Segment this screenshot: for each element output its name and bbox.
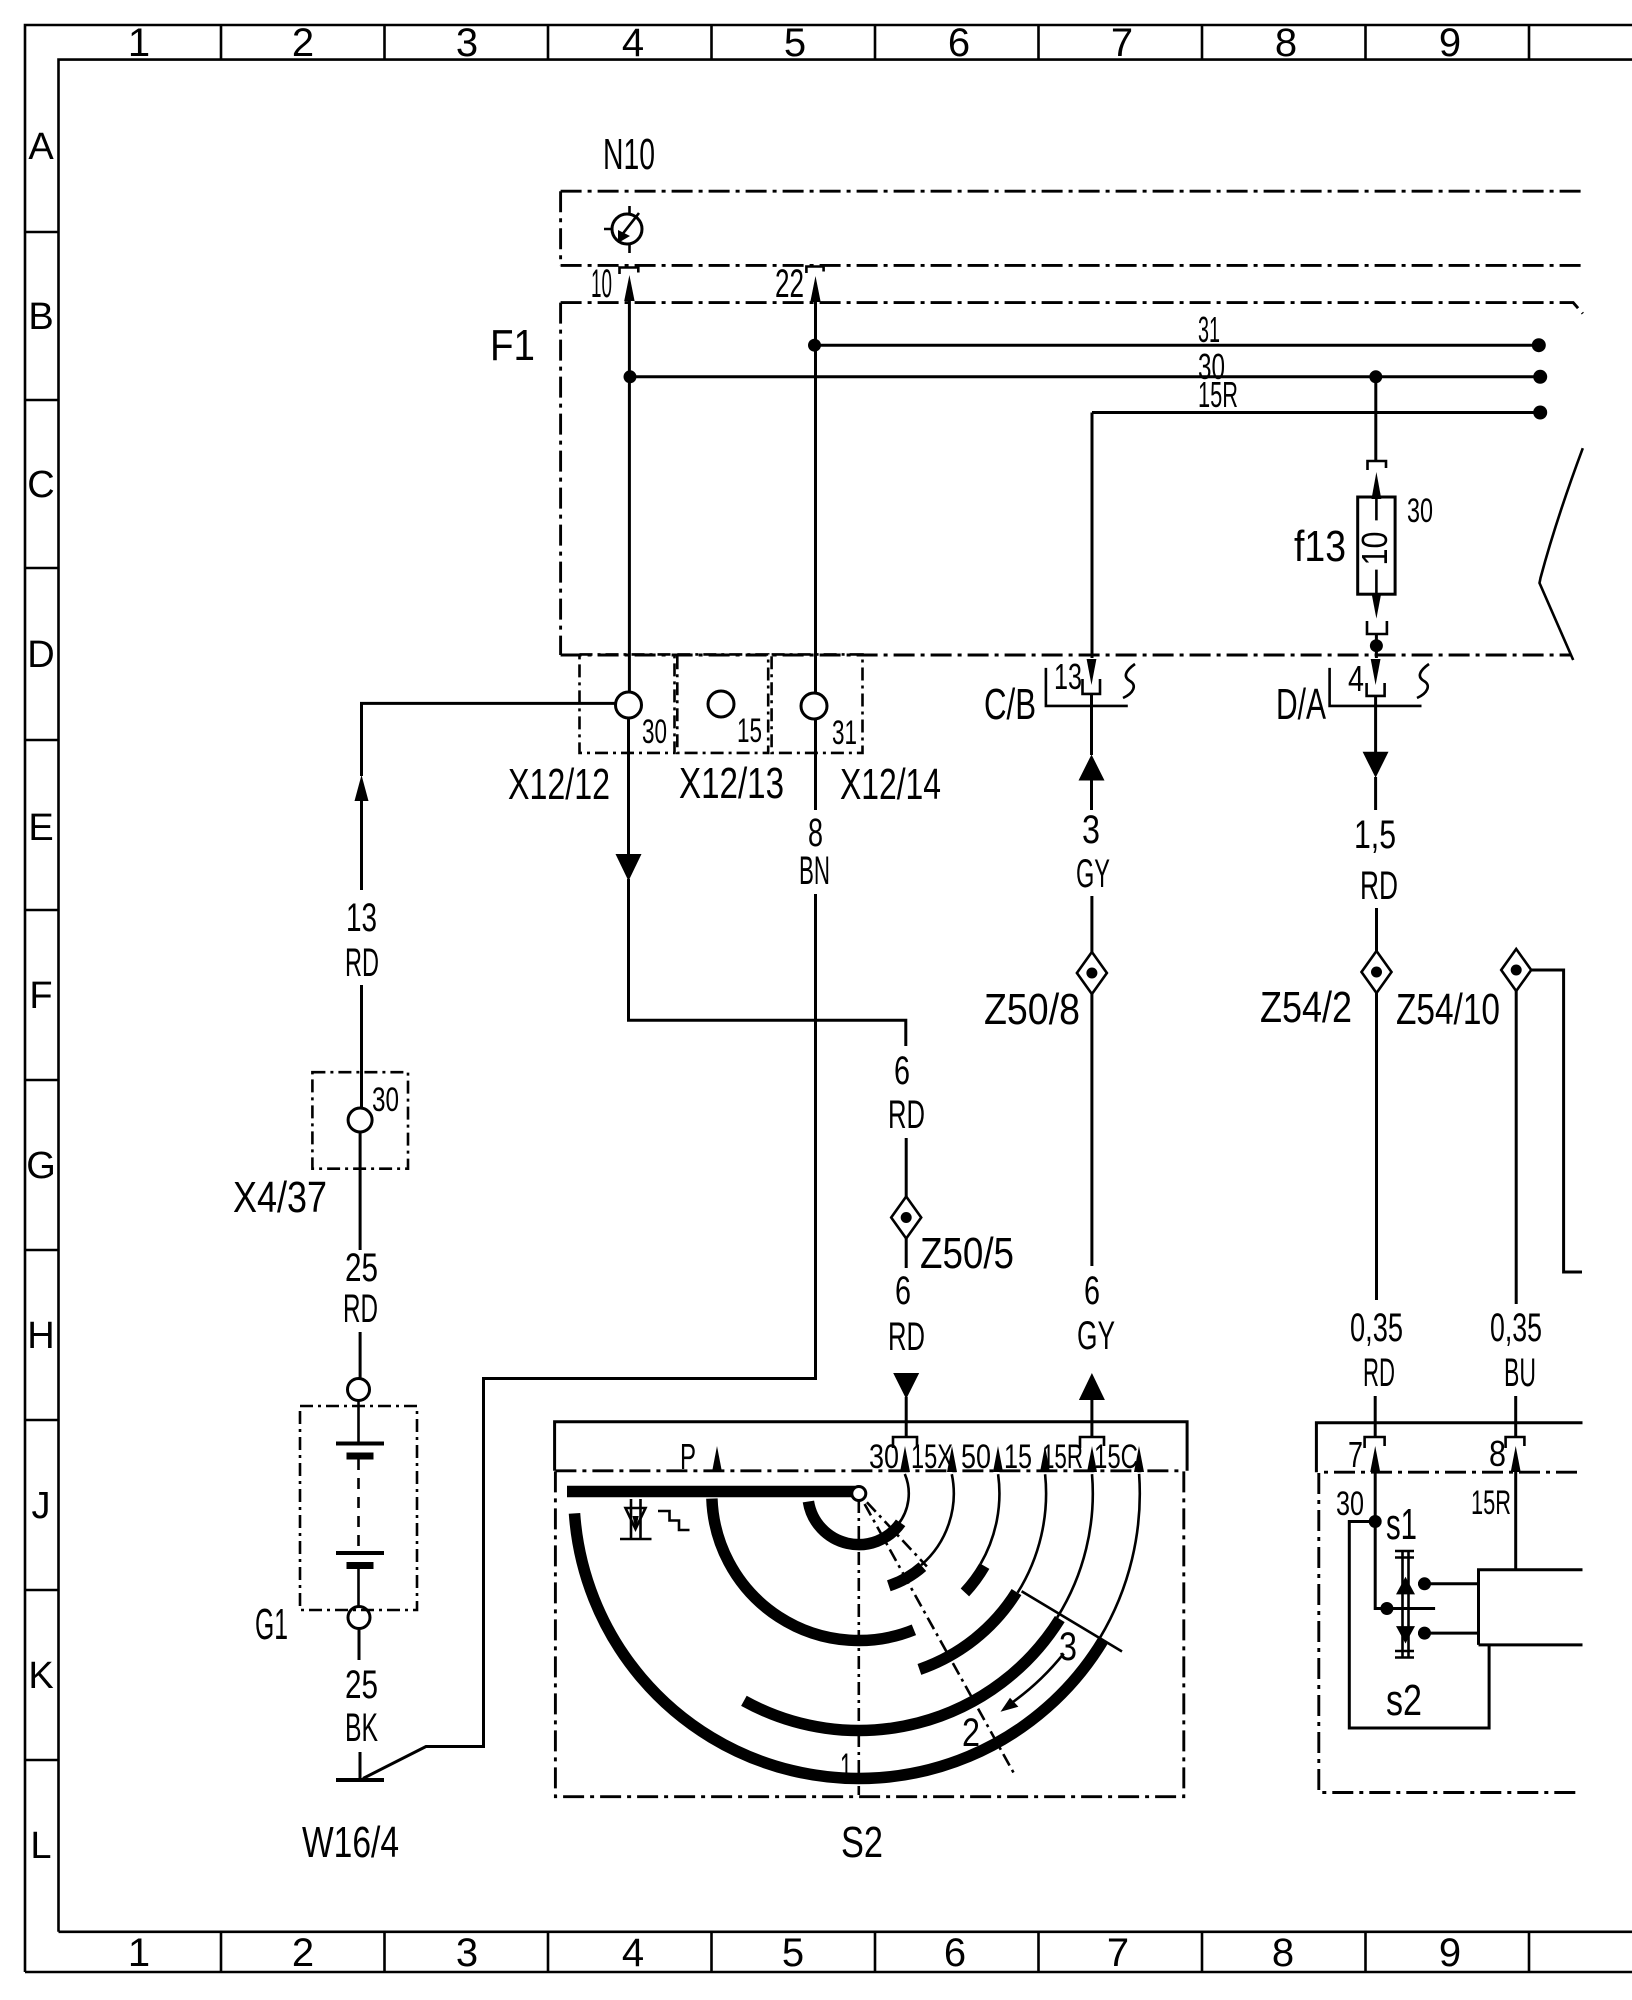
svg-text:0,35: 0,35 — [1490, 1306, 1542, 1350]
ground link wire to BN — [363, 1379, 816, 1779]
switch lower contact arrow — [1396, 1626, 1415, 1643]
X12/12 pin 30 label — [642, 713, 667, 751]
arrow down on X12/12 wire — [616, 854, 642, 881]
connector C/B pin 13 label — [1054, 656, 1082, 697]
X12/14 pin 31 label — [832, 714, 857, 752]
S2 position 3 line — [1022, 1591, 1122, 1651]
S2 pin 15R bracket — [1080, 1437, 1104, 1448]
svg-text:RD: RD — [1363, 1351, 1395, 1395]
svg-text:15: 15 — [1004, 1438, 1032, 1476]
svg-text:3: 3 — [456, 21, 478, 65]
fuse f13 top bracket — [1368, 461, 1387, 470]
svg-text:N10: N10 — [603, 130, 655, 179]
svg-text:30: 30 — [642, 713, 667, 751]
wire Z50/8 down — [1090, 994, 1093, 1266]
svg-text:RD: RD — [888, 1093, 925, 1137]
wire bus30 through X12/12 — [628, 377, 631, 692]
svg-text:2: 2 — [292, 1931, 314, 1975]
relay box dash-dot — [1319, 1472, 1577, 1792]
svg-text:5: 5 — [782, 1931, 804, 1975]
svg-text:50: 50 — [961, 1438, 991, 1476]
svg-text:30: 30 — [372, 1081, 399, 1119]
connector C/B pin 13 arrow — [1087, 659, 1097, 685]
S2 ring4 wiper arc — [919, 1592, 1016, 1669]
switch upper contact arrow — [1396, 1577, 1415, 1595]
S2 ring3 wiper arc — [712, 1499, 914, 1641]
svg-text:10: 10 — [1354, 532, 1395, 566]
pin 22 label — [775, 262, 804, 306]
svg-text:0,35: 0,35 — [1350, 1306, 1403, 1350]
wire X12/14 BN lower — [814, 894, 817, 1380]
S2 pin 15C arrow — [1134, 1446, 1144, 1472]
svg-text:BN: BN — [799, 849, 830, 893]
bottom ruler dividers — [221, 1932, 1529, 1972]
arrow up on 13 RD wire — [355, 775, 369, 801]
svg-text:7: 7 — [1348, 1434, 1363, 1475]
wire pin 7 down — [1375, 1470, 1435, 1609]
label BU — [1504, 1351, 1536, 1395]
connector C/B bracket — [1046, 664, 1135, 706]
wire BU into coil box — [1514, 1472, 1517, 1570]
junction dot pin7 wire — [1369, 1515, 1382, 1528]
fuse f13 label — [1294, 522, 1346, 571]
label RD (upper) — [888, 1093, 925, 1137]
S2 pin 30 label — [869, 1438, 899, 1476]
wire s2 loop — [1349, 1522, 1489, 1729]
connector X12/14 terminal circle — [801, 693, 827, 719]
ignition switch S2 box — [555, 1471, 1183, 1797]
svg-text:4: 4 — [1348, 658, 1364, 699]
wire 15R to C/B — [1091, 413, 1094, 659]
wire D/A down — [1374, 696, 1377, 752]
svg-text:Z54/10: Z54/10 — [1396, 985, 1500, 1034]
fuse f13 pin 30 label — [1407, 492, 1433, 530]
wire to pin 7 — [1374, 1396, 1377, 1437]
svg-text:13: 13 — [1054, 656, 1082, 697]
svg-text:15: 15 — [737, 712, 762, 750]
arrow up on GY wire — [1079, 1373, 1105, 1400]
svg-text:22: 22 — [775, 262, 804, 306]
wire bus30 down to fuse f13 — [1374, 377, 1377, 460]
bus line 31 — [808, 309, 1546, 352]
wire pin22 to bus 31 — [814, 299, 817, 346]
svg-text:s1: s1 — [1386, 1500, 1417, 1549]
wire to Z50/5 — [905, 1138, 908, 1197]
svg-text:BU: BU — [1504, 1351, 1536, 1395]
connector C/B pin 13 socket — [1083, 679, 1101, 694]
fuse f13 body — [1354, 497, 1395, 594]
switch lower contact dot and wire — [1418, 1627, 1479, 1640]
label GY low — [1077, 1314, 1115, 1358]
svg-text:9: 9 — [1439, 1931, 1461, 1975]
relay module F1 box — [561, 303, 1583, 655]
wire X4/37 down — [359, 1132, 362, 1250]
fuse f13 bottom socket — [1367, 621, 1387, 634]
svg-text:3: 3 — [1082, 808, 1100, 852]
wire battery minus down — [358, 1629, 361, 1661]
S2 pin P label — [680, 1436, 696, 1477]
label 1,5 — [1354, 813, 1396, 857]
svg-text:1,5: 1,5 — [1354, 813, 1396, 857]
svg-text:6: 6 — [895, 1269, 911, 1313]
wire X12/14 BN upper — [814, 719, 817, 810]
S2 ring1 contact arc thin — [898, 1474, 909, 1524]
svg-text:4: 4 — [622, 21, 644, 65]
S2 position label 2 — [962, 1711, 980, 1755]
junction dot contact mid — [1380, 1602, 1393, 1615]
svg-text:30: 30 — [1407, 492, 1433, 530]
relay pin 8 arrow — [1511, 1446, 1521, 1472]
top ruler dividers — [221, 25, 1529, 60]
wire 13 RD upper — [360, 800, 363, 890]
wire 13 RD lower — [360, 985, 363, 1108]
N10 clock symbol — [604, 206, 642, 253]
S2 position label 1 — [840, 1746, 852, 1790]
label BK — [345, 1706, 378, 1750]
connector X12/14 label — [840, 760, 941, 809]
fuse f13 top arrow — [1372, 472, 1382, 499]
svg-text:6: 6 — [944, 1931, 966, 1975]
splice Z50/8 label — [984, 985, 1080, 1034]
relay pin 7 label — [1348, 1434, 1363, 1475]
S2 ring6 contact arc thin — [1100, 1474, 1140, 1638]
left letter strip dividers — [25, 232, 59, 1760]
svg-text:7: 7 — [1111, 21, 1133, 65]
connector D/A pin 4 arrow — [1371, 659, 1381, 685]
label 6 (GY low) — [1084, 1269, 1100, 1313]
label BN — [799, 849, 830, 893]
svg-text:9: 9 — [1439, 21, 1461, 65]
F1 torn right edge — [1540, 448, 1583, 660]
wire Z54/2 down — [1375, 993, 1378, 1300]
wire bus31 through X12/14 — [814, 346, 817, 693]
svg-text:5: 5 — [784, 21, 806, 65]
S2 lock symbol M — [620, 1499, 652, 1539]
svg-text:H: H — [27, 1315, 54, 1357]
pin 22 bracket — [806, 267, 823, 274]
svg-text:X12/12: X12/12 — [508, 760, 610, 809]
svg-text:30: 30 — [869, 1438, 899, 1476]
S2 rotation arrow — [1001, 1654, 1064, 1712]
svg-text:8: 8 — [1275, 21, 1297, 65]
connector D/A label — [1276, 680, 1326, 729]
junction dot f13 to D/A — [1370, 634, 1383, 658]
svg-text:S2: S2 — [841, 1818, 883, 1867]
S2 ring5 contact arc thin — [1057, 1474, 1093, 1617]
S2 pin 15 arrow — [1040, 1446, 1050, 1472]
wire BU to pin 8 — [1514, 1396, 1517, 1437]
label RD (lower) — [888, 1315, 925, 1359]
wire C/B down 2 — [1090, 780, 1093, 810]
wire Z54/10 down — [1515, 991, 1518, 1304]
svg-text:6: 6 — [948, 21, 970, 65]
fuse f13 bottom arrow — [1372, 593, 1382, 619]
top ruler numbers — [128, 21, 1461, 65]
svg-text:C/B: C/B — [984, 680, 1036, 729]
wire X12/12 down — [627, 718, 630, 855]
S2 ring1 wiper arc — [808, 1502, 900, 1545]
svg-text:f13: f13 — [1294, 522, 1346, 571]
S2 pin 15R arrow — [1087, 1446, 1097, 1472]
battery G1 cells — [336, 1401, 384, 1608]
S2 pin 15X arrow — [947, 1446, 957, 1472]
relay pin 7 arrow — [1370, 1446, 1380, 1472]
label 0,35 (BU) — [1490, 1306, 1542, 1350]
svg-text:RD: RD — [888, 1315, 925, 1359]
svg-text:D: D — [27, 634, 54, 676]
label 3 (GY) — [1082, 808, 1100, 852]
svg-text:10: 10 — [591, 262, 612, 306]
label 0,35 (RD) — [1350, 1306, 1403, 1350]
label 6 (RD upper) — [894, 1049, 910, 1093]
S2 pin 15X label — [911, 1438, 953, 1476]
svg-text:s2: s2 — [1386, 1676, 1422, 1725]
label RD (pin7 wire) — [1363, 1351, 1395, 1395]
S2 position 2 line — [865, 1504, 1014, 1773]
switch s2 label — [1386, 1676, 1422, 1725]
wire pin10 to bus 30 — [628, 298, 631, 377]
relay coil box — [1479, 1570, 1583, 1645]
control unit N10 box — [561, 191, 1582, 265]
X4/37 pin 30 label — [372, 1081, 399, 1119]
connector D/A bracket — [1330, 664, 1429, 706]
switch upper contact dot and wire — [1418, 1577, 1479, 1590]
svg-text:4: 4 — [622, 1931, 644, 1975]
label GY — [1076, 852, 1110, 896]
svg-text:RD: RD — [1360, 864, 1398, 908]
svg-text:1: 1 — [840, 1746, 852, 1790]
connector X4/37 label — [233, 1173, 327, 1222]
ignition switch S2 label — [841, 1818, 883, 1867]
arrow down on D/A wire — [1363, 752, 1389, 778]
connector X12/13 terminal circle — [708, 691, 734, 717]
S2 pin P arrow — [712, 1446, 722, 1472]
connector X12/13 box — [677, 654, 768, 753]
label 13 (RD) — [346, 896, 377, 940]
battery G1 top terminal — [348, 1379, 370, 1401]
splice Z54/10 — [1501, 949, 1531, 991]
svg-text:F: F — [29, 975, 52, 1017]
relay box outer top — [1316, 1423, 1582, 1472]
S2 ring2 contact arc thin — [921, 1474, 954, 1565]
S2 pivot — [852, 1487, 866, 1501]
S2 ring3 contact arc thin — [981, 1474, 1000, 1564]
svg-text:30: 30 — [1336, 1485, 1364, 1523]
connector D/A pin 4 socket — [1367, 683, 1385, 696]
svg-text:RD: RD — [345, 941, 379, 985]
S2 ring6 wiper arc — [575, 1513, 1104, 1778]
connector X12/14 box — [772, 654, 863, 753]
switch bar double line — [1395, 1551, 1414, 1658]
svg-text:D/A: D/A — [1276, 680, 1326, 729]
svg-text:31: 31 — [1198, 309, 1220, 350]
S2 lock steps symbol — [658, 1511, 690, 1530]
svg-text:15C: 15C — [1094, 1438, 1138, 1476]
connector D/A pin 4 label — [1348, 658, 1364, 699]
pin 10 arrow — [624, 275, 634, 301]
svg-text:3: 3 — [1059, 1625, 1077, 1669]
label 8 (BN) — [808, 811, 823, 855]
svg-text:L: L — [30, 1825, 51, 1867]
relay module F1 label — [490, 321, 535, 370]
wire Z54/10 right stub — [1531, 970, 1582, 1272]
connector X12/12 terminal circle — [616, 692, 642, 718]
S2 ring3 contact segment — [965, 1566, 985, 1592]
svg-text:13: 13 — [346, 896, 377, 940]
wire D/A down 2 — [1374, 777, 1377, 810]
svg-text:E: E — [28, 807, 53, 849]
svg-text:31: 31 — [832, 714, 857, 752]
splice Z54/2 — [1362, 951, 1392, 993]
svg-text:G: G — [26, 1145, 56, 1187]
splice Z54/10 label — [1396, 985, 1500, 1034]
svg-text:X12/14: X12/14 — [840, 760, 941, 809]
relay pin 8 label — [1489, 1433, 1506, 1474]
S2 pin 15R label — [1042, 1438, 1083, 1476]
S2 pin 50 label — [961, 1438, 991, 1476]
svg-text:15X: 15X — [911, 1438, 953, 1476]
S2 ring5 wiper arc — [744, 1619, 1060, 1730]
S2 rotor bar — [567, 1486, 855, 1498]
label RD (D/A wire) — [1360, 864, 1398, 908]
svg-text:1: 1 — [128, 21, 150, 65]
bus line 30 — [624, 346, 1548, 387]
svg-text:Z50/8: Z50/8 — [984, 985, 1080, 1034]
svg-text:Z50/5: Z50/5 — [920, 1229, 1014, 1278]
connector X4/37 terminal circle — [348, 1108, 372, 1132]
X12/13 pin 15 label — [737, 712, 762, 750]
wire Z50/5 down — [905, 1239, 908, 1269]
splice Z50/5 label — [920, 1229, 1014, 1278]
S2 position line short — [867, 1502, 927, 1566]
wire RD to S2 pin 30 — [905, 1397, 908, 1436]
svg-text:25: 25 — [345, 1246, 378, 1290]
label 6 (RD lower) — [895, 1269, 911, 1313]
switch s1 label — [1386, 1500, 1417, 1549]
S2 pin 30 arrow — [900, 1446, 910, 1472]
ground W16/4 — [336, 1778, 384, 1782]
svg-text:C: C — [27, 464, 54, 506]
splice Z50/5 — [891, 1197, 921, 1239]
connector X12/13 label — [679, 759, 784, 808]
bottom ruler numbers — [128, 1931, 1461, 1975]
relay pin 8 bracket — [1506, 1437, 1525, 1448]
relay pin 7 bracket — [1365, 1437, 1385, 1448]
wire to Z54/2 — [1375, 908, 1378, 951]
connector C/B label — [984, 680, 1036, 729]
connector X4/37 box — [312, 1072, 408, 1169]
svg-text:Z54/2: Z54/2 — [1260, 983, 1352, 1032]
wire GY to S2 pin 15R — [1090, 1398, 1093, 1436]
svg-text:7: 7 — [1107, 1931, 1129, 1975]
svg-text:15R: 15R — [1042, 1438, 1083, 1476]
wire C/B down — [1090, 694, 1093, 755]
svg-text:J: J — [32, 1485, 51, 1527]
svg-text:8: 8 — [1272, 1931, 1294, 1975]
svg-text:F1: F1 — [490, 321, 535, 370]
wire to battery — [359, 1332, 362, 1379]
svg-text:2: 2 — [962, 1711, 980, 1755]
svg-text:BK: BK — [345, 1706, 378, 1750]
pin 10 bracket — [620, 268, 639, 275]
battery G1 bottom terminal — [348, 1607, 370, 1629]
svg-text:6: 6 — [894, 1049, 910, 1093]
S2 pin 50 arrow — [993, 1446, 1003, 1472]
bus line 15R — [1092, 374, 1547, 420]
svg-text:6: 6 — [1084, 1269, 1100, 1313]
wire X12/12 down to corner — [629, 879, 906, 1046]
battery G1 box — [300, 1406, 417, 1610]
svg-text:A: A — [28, 126, 54, 168]
svg-text:GY: GY — [1077, 1314, 1115, 1358]
wire to Z50/8 — [1090, 896, 1093, 952]
S2 pin 15C label — [1094, 1438, 1138, 1476]
wire X12/12 left branch — [362, 703, 617, 776]
S2 pin 15 label — [1004, 1438, 1032, 1476]
svg-text:2: 2 — [292, 21, 314, 65]
splice Z54/2 label — [1260, 983, 1352, 1032]
svg-text:B: B — [28, 296, 53, 338]
connector X12/12 label — [508, 760, 610, 809]
relay 15R label — [1471, 1484, 1511, 1522]
svg-text:G1: G1 — [255, 1600, 288, 1649]
splice Z50/8 — [1077, 952, 1107, 994]
svg-text:K: K — [28, 1655, 53, 1697]
relay 30 label — [1336, 1485, 1364, 1523]
label RD (battery wire) — [343, 1287, 378, 1331]
svg-text:RD: RD — [343, 1287, 378, 1331]
pin 22 arrow — [810, 276, 820, 302]
label 25 (BK) — [345, 1663, 378, 1707]
svg-text:15R: 15R — [1198, 374, 1238, 415]
S2 pin 30 bracket — [893, 1437, 917, 1448]
left row letters — [26, 126, 56, 1867]
S2 centre position line — [857, 1500, 860, 1795]
svg-text:25: 25 — [345, 1663, 378, 1707]
svg-text:X12/13: X12/13 — [679, 759, 784, 808]
svg-text:P: P — [680, 1436, 696, 1477]
svg-text:1: 1 — [128, 1931, 150, 1975]
svg-text:GY: GY — [1076, 852, 1110, 896]
S2 position label 3 — [1059, 1625, 1077, 1669]
connector X12/12 box — [580, 654, 675, 753]
pin 10 label — [591, 262, 612, 306]
arrow up on C/B wire — [1079, 755, 1105, 781]
S2 ring2 contact segment — [889, 1567, 923, 1586]
svg-text:W16/4: W16/4 — [302, 1818, 399, 1867]
svg-text:8: 8 — [1489, 1433, 1506, 1474]
svg-text:3: 3 — [456, 1931, 478, 1975]
label 25 (RD) — [345, 1246, 378, 1290]
svg-text:15R: 15R — [1471, 1484, 1511, 1522]
control unit N10 label — [603, 130, 655, 179]
svg-text:X4/37: X4/37 — [233, 1173, 327, 1222]
ground W16/4 label — [302, 1818, 399, 1867]
label RD (left wire) — [345, 941, 379, 985]
S2 ring4 contact arc thin — [1018, 1474, 1046, 1593]
wire to ground — [359, 1752, 362, 1779]
ignition switch S2 outer top — [555, 1422, 1188, 1471]
battery G1 label — [255, 1600, 288, 1649]
arrow down on RD wire — [893, 1373, 919, 1399]
